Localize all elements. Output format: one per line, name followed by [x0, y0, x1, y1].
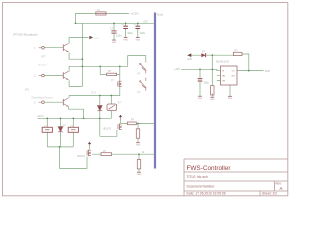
mosfet M2 — [87, 150, 91, 156]
wire +12V rail top — [76, 12, 130, 14]
wire Q1 collector bridge — [69, 38, 88, 44]
wire cap right — [199, 69, 201, 95]
svg-text:RxD: RxD — [265, 69, 270, 73]
supply arrow M1 — [119, 115, 122, 121]
wire W1 main — [69, 56, 146, 67]
resistor R4b pulldown — [137, 160, 140, 169]
svg-text:VO: VO — [232, 71, 235, 73]
connector pin 1 — [34, 46, 44, 50]
wire Q2 emitter bridge — [69, 80, 82, 86]
wire M1 drain arrow — [120, 120, 122, 123]
ground below C2 — [123, 37, 128, 41]
transistor Q1 — [63, 44, 68, 53]
IC U1 box — [216, 59, 237, 85]
ground below R4b — [137, 172, 142, 176]
svg-text:100n: 100n — [116, 35, 122, 38]
svg-text:ADUM1201: ADUM1201 — [216, 59, 230, 63]
wire Q2 collector to W1 — [68, 66, 70, 71]
mosfet M1 — [118, 124, 122, 130]
svg-text:100u: 100u — [127, 32, 133, 35]
wire RL2 stubs — [72, 118, 74, 147]
wire trunk x82.4 — [81, 23, 83, 86]
wire to M2 — [60, 147, 87, 169]
resistor R5 — [234, 49, 243, 55]
frame border — [3, 3, 288, 196]
wire D2 stubs — [60, 118, 62, 147]
fuse F1 — [96, 9, 107, 15]
wire M1 source route — [100, 130, 117, 137]
relay coil K1 — [107, 102, 121, 111]
svg-text:Sheet: 2/2: Sheet: 2/2 — [262, 192, 277, 196]
wire R5 to output — [242, 54, 249, 71]
page background — [0, 0, 295, 202]
resistor R4 — [101, 153, 112, 156]
ground below C4 — [198, 96, 203, 100]
ground below C1 — [112, 40, 117, 44]
svg-text:(Pumpe): (Pumpe) — [38, 65, 47, 67]
wire base leads — [44, 48, 63, 102]
wire right supply — [191, 54, 234, 56]
resistor R3 — [127, 122, 136, 125]
capacitor C1 — [110, 27, 122, 37]
svg-text:+12V: +12V — [94, 38, 100, 40]
wire rail link vertical — [75, 13, 77, 23]
bus line — [154, 13, 156, 169]
svg-text:BUZ11: BUZ11 — [78, 155, 86, 158]
diode D3 — [97, 106, 102, 111]
connector pin 3 — [34, 101, 44, 105]
wire K1 stubs — [110, 96, 112, 119]
capacitor C2 — [122, 23, 134, 35]
svg-text:+12V: +12V — [187, 58, 193, 61]
wire capacitor drops — [113, 23, 115, 39]
diode D1 — [201, 50, 205, 57]
svg-text:Bus1: Bus1 — [157, 13, 163, 17]
relay coil RL1 — [42, 125, 52, 132]
svg-text:+12V: +12V — [143, 21, 149, 23]
svg-text:JP?: JP? — [41, 54, 46, 58]
svg-text:BS170: BS170 — [104, 128, 112, 131]
green wire network — [38, 13, 264, 171]
wire +5V rail — [38, 117, 112, 119]
diode D2 — [58, 124, 66, 131]
wire relay K top — [69, 95, 111, 97]
svg-text:Date: 17.05.2010 19:05:09: Date: 17.05.2010 19:05:09 — [187, 192, 226, 196]
capacitor C3 — [134, 23, 146, 35]
wire Q1 emitter bridge — [69, 52, 82, 59]
transistor Q2 — [63, 71, 68, 80]
svg-text:GG: GG — [232, 76, 236, 78]
wire Q3 emitter to +5V rail — [69, 107, 84, 119]
resistor R6 vertical — [211, 86, 214, 95]
transistor T-upper — [111, 79, 122, 87]
svg-text:+5V/1: +5V/1 — [37, 114, 44, 118]
wire M1 pulldown — [137, 124, 139, 143]
svg-text:FWS-Controller: FWS-Controller — [187, 165, 232, 172]
svg-text:REV:: REV: — [276, 182, 282, 186]
wire R2 right lead — [117, 73, 120, 75]
wire R2 drop left — [100, 66, 107, 74]
ground below C3 — [135, 37, 140, 41]
wire M2 drain arrow — [89, 147, 91, 149]
svg-text:+12V: +12V — [174, 67, 180, 71]
capacitor C4 — [198, 79, 210, 85]
wire IC pin stubs — [217, 71, 221, 81]
supply arrow M2 — [88, 142, 91, 148]
ground below R3b — [136, 142, 141, 146]
wire T-upper vertical — [119, 66, 121, 81]
svg-text:+12V/1: +12V/1 — [131, 12, 140, 16]
title block outline — [184, 159, 288, 196]
wire M2 pulldown — [138, 154, 140, 171]
wire +12V row right — [181, 69, 217, 70]
wire vert x212 — [211, 55, 213, 96]
svg-text:(PT100-Eingänge): (PT100-Eingänge) — [13, 32, 38, 36]
wire relay bottom rail — [47, 146, 73, 148]
svg-text:(Durchfluss-Sensor): (Durchfluss-Sensor) — [32, 96, 53, 99]
wire D3 branch — [99, 96, 101, 137]
wire IC ground — [229, 85, 231, 96]
wire T-upper to relay wire — [111, 87, 120, 95]
wire output — [237, 70, 264, 72]
relay coil RL2 — [68, 125, 78, 132]
resistor R3b pulldown — [136, 129, 139, 138]
wire rail2 to bus — [76, 22, 154, 24]
svg-text:TITLE: fdc.sch: TITLE: fdc.sch — [187, 175, 208, 179]
relay contact S1 — [140, 60, 147, 73]
transistor Q3 — [63, 98, 68, 107]
resistor R2 — [107, 70, 117, 75]
connector pin 2 — [34, 74, 44, 78]
svg-text:Document Number:: Document Number: — [187, 184, 216, 188]
svg-text:100u: 100u — [140, 32, 146, 35]
wire M1 gate chain — [122, 123, 154, 125]
relay contact S2 — [140, 78, 147, 91]
wire Q3 collector — [68, 96, 70, 98]
ground below R6 — [210, 97, 215, 101]
svg-text:JP1: JP1 — [25, 88, 30, 92]
ground below IC — [228, 96, 233, 100]
net arrow right (collector rail) — [89, 36, 93, 40]
svg-text:K1.A: K1.A — [91, 92, 96, 95]
svg-text:100u: 100u — [204, 82, 210, 85]
wire M2 gate chain — [92, 153, 154, 155]
wire RL1 stubs — [46, 118, 48, 147]
net arrow left (+12V feed) — [187, 53, 191, 57]
